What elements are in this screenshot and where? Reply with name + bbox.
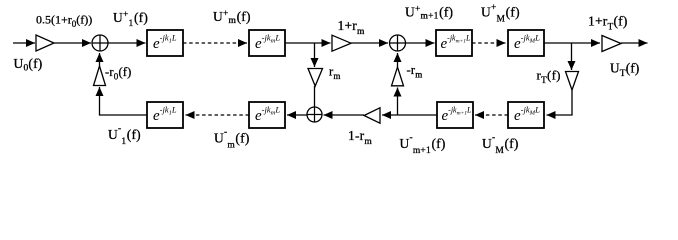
svg-text:U-M(f): U-M(f) (482, 133, 519, 156)
svg-text:U+M(f): U+M(f) (481, 3, 520, 25)
svg-text:U+1(f): U+1(f) (113, 10, 148, 29)
svg-text:1-rm: 1-rm (348, 128, 372, 147)
svg-text:U+m(f): U+m(f) (213, 9, 251, 26)
svg-text:-r0(f): -r0(f) (105, 65, 132, 82)
svg-text:U-m+1(f): U-m+1(f) (400, 133, 446, 156)
svg-text:rm: rm (329, 65, 341, 82)
svg-text:0.5(1+r0(f)): 0.5(1+r0(f)) (36, 13, 92, 30)
svg-text:1+rT(f): 1+rT(f) (588, 14, 628, 33)
svg-text:1+rm: 1+rm (338, 18, 365, 37)
svg-text:U+m+1(f): U+m+1(f) (405, 5, 453, 22)
svg-text:U0(f): U0(f) (14, 56, 43, 74)
svg-text:-rm: -rm (407, 63, 423, 80)
svg-text:UT(f): UT(f) (610, 61, 640, 80)
svg-text:U-1(f): U-1(f) (108, 124, 141, 147)
svg-text:rT(f): rT(f) (537, 68, 561, 87)
svg-text:U-m(f): U-m(f) (214, 128, 250, 151)
